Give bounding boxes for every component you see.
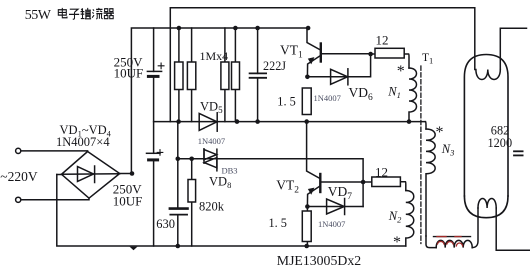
winding N2	[406, 191, 414, 247]
wire VT1 base line	[322, 53, 371, 55]
resistor R4 1M	[234, 28, 236, 122]
svg-text:VT1: VT1	[280, 43, 303, 61]
diode VD7 1N4007	[307, 206, 363, 208]
resistor R2 1M	[191, 28, 193, 122]
wire top DC bus	[131, 28, 308, 174]
bridge inner diode	[62, 173, 120, 176]
resistor R3 1M	[224, 28, 226, 122]
diode VD6 1N4007	[307, 54, 370, 77]
svg-text:1. 5: 1. 5	[269, 216, 287, 230]
transformer T1 core	[420, 66, 422, 244]
node dot	[361, 180, 366, 185]
capacitor C1 250V 10UF	[147, 70, 161, 72]
node dot	[255, 119, 260, 124]
wire AC input top	[21, 150, 88, 152]
resistor 820k	[191, 159, 193, 246]
label title chinese dianzi zhenliuqi	[58, 8, 114, 19]
svg-text:VT2: VT2	[276, 178, 299, 196]
svg-text:1N4007: 1N4007	[314, 93, 341, 103]
node dot	[305, 75, 310, 80]
wire DB3 base feed line	[178, 159, 363, 207]
svg-text:N3: N3	[441, 142, 455, 158]
node dot	[304, 244, 309, 249]
wire bridge plus output to bus riser	[120, 173, 132, 175]
winding core bar	[434, 236, 471, 238]
transistor VT2	[307, 122, 320, 179]
svg-text:*: *	[436, 124, 444, 141]
resistor 1.5 lower	[306, 207, 308, 247]
node dot	[233, 26, 238, 31]
wire bottom DC bus	[57, 175, 406, 247]
svg-text:55W: 55W	[25, 8, 52, 23]
svg-text:VD7: VD7	[328, 184, 353, 202]
svg-text:*: *	[393, 234, 401, 251]
diac VD8 DB3	[204, 150, 217, 160]
svg-text:1N4007×4: 1N4007×4	[56, 135, 110, 149]
node dot	[305, 204, 310, 209]
capacitor C2 250V 10UF	[147, 152, 161, 154]
svg-text:1Mx4: 1Mx4	[200, 49, 229, 63]
svg-text:1. 5: 1. 5	[277, 95, 295, 109]
svg-text:VD5: VD5	[200, 99, 223, 115]
node dot	[407, 119, 412, 124]
node dot	[176, 244, 181, 249]
wire mid rail	[154, 121, 426, 123]
terminal AC lower	[16, 197, 21, 202]
wire lamp right top to cap	[500, 28, 526, 69]
node dot	[176, 119, 181, 124]
node dot	[304, 119, 309, 124]
wire AC input bottom	[21, 198, 89, 200]
resistor 12 lower	[363, 181, 372, 183]
transistor VT1	[307, 28, 321, 50]
svg-text:1N4007: 1N4007	[318, 219, 345, 229]
lamp tube envelope	[464, 55, 508, 197]
lamp bottom filament	[478, 199, 496, 208]
wire bridge left vertex stub	[57, 174, 62, 176]
node dot	[177, 26, 182, 31]
node dot	[235, 119, 240, 124]
terminal AC upper	[16, 148, 21, 153]
winding N3	[424, 122, 427, 129]
svg-text:VD6: VD6	[349, 85, 374, 103]
wire lamp right bottom to edge	[496, 208, 530, 250]
winding lamp heater loop	[426, 236, 436, 248]
svg-text:DB3: DB3	[222, 165, 238, 175]
lamp top filament	[476, 70, 500, 80]
node dot	[130, 171, 135, 176]
node dot	[306, 26, 311, 31]
svg-text:N1: N1	[387, 85, 401, 101]
capacitor 682 1200V plates	[514, 150, 523, 152]
winding N1	[409, 68, 417, 122]
capacitor 222J	[257, 28, 259, 73]
svg-text:~220V: ~220V	[0, 169, 38, 184]
wire VT2 base line	[321, 181, 363, 183]
node dot	[368, 52, 373, 57]
svg-text:12: 12	[375, 164, 388, 179]
wire 630/DB3 vertical	[177, 122, 179, 209]
svg-text:T1: T1	[422, 52, 433, 66]
svg-text:10UF: 10UF	[114, 66, 144, 81]
svg-text:1200: 1200	[488, 136, 513, 150]
wire top lamp-return line	[170, 8, 475, 122]
resistor 1.5 upper	[302, 88, 311, 115]
capacitor 630	[170, 207, 188, 210]
svg-text:N2: N2	[388, 209, 402, 225]
svg-text:820k: 820k	[199, 200, 225, 214]
svg-text:VD8: VD8	[209, 174, 231, 190]
wire capacitor string vertical	[153, 28, 155, 71]
svg-text:10UF: 10UF	[113, 193, 143, 208]
resistor R1 1M	[178, 28, 180, 122]
svg-text:630: 630	[156, 217, 175, 231]
bridge rectifier VD1-VD4 diamond	[62, 152, 120, 199]
resistor 12 upper	[371, 53, 375, 55]
node dot	[189, 157, 194, 162]
svg-text:*: *	[397, 63, 405, 80]
svg-text:222J: 222J	[263, 59, 286, 73]
svg-text:1N4007: 1N4007	[198, 136, 225, 146]
svg-text:12: 12	[376, 32, 389, 47]
artifact mark bottom bus	[130, 247, 138, 251]
svg-text:MJE13005Dx2: MJE13005Dx2	[277, 253, 361, 268]
node dot	[255, 26, 260, 31]
diode VD5 1N4007	[199, 113, 217, 130]
node dot	[176, 157, 181, 162]
